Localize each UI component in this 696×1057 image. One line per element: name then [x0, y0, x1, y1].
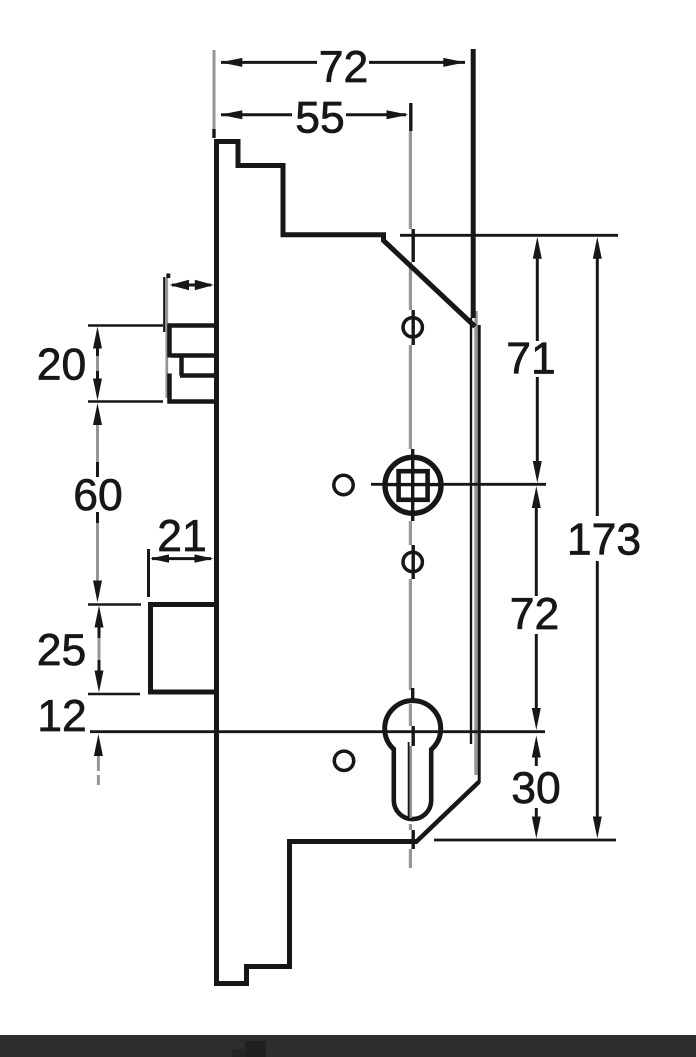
centerline black dash at top ext: [412, 229, 415, 262]
body bottom foot outline: [214, 839, 290, 984]
latch dim arrow left: [170, 280, 190, 291]
centerline black dash through screw hole: [412, 310, 415, 345]
spindle hole circle: [385, 457, 441, 513]
extension line gray left (72/55): [213, 50, 216, 130]
body right edge inner line: [470, 318, 472, 744]
dim 20 shaft gray: [96, 356, 99, 371]
dim 30 arrow up: [532, 736, 541, 758]
dim 71 shaft upper: [536, 248, 539, 341]
centerline black edge in cylinder stem: [408, 742, 410, 820]
dim 30 arrow down: [532, 817, 541, 839]
svg-text:30: 30: [511, 764, 561, 813]
latch bottom edge: [168, 399, 217, 404]
left extension black tick: [212, 129, 215, 138]
dim 20 ext bottom: [88, 400, 163, 403]
svg-text:21: 21: [157, 512, 207, 561]
screw hole left bottom: [334, 751, 353, 770]
dim 72 top arrow left: [220, 58, 242, 67]
cylinder center extension line: [90, 730, 545, 733]
latch mid line 1: [171, 353, 216, 358]
spindle center extension line: [371, 483, 546, 486]
dim 72 right shaft upper: [535, 495, 538, 596]
right extension black thick top: [471, 49, 476, 318]
svg-text:25: 25: [37, 626, 87, 675]
dim 12 shaft gray: [97, 756, 100, 771]
centerline black dash through small hole: [412, 545, 415, 579]
dim 20 ext top: [88, 324, 163, 327]
foot inner tick gray: [245, 971, 248, 983]
latch bevel step: [179, 356, 184, 376]
top extension line right: [400, 234, 618, 237]
dim 55 arrow right: [387, 110, 409, 119]
dim 71 shaft lower: [536, 377, 539, 472]
dim 71 arrow up: [533, 237, 542, 259]
dim 60 arrow down: [93, 581, 102, 603]
dim 72 right shaft lower: [535, 634, 538, 721]
svg-text:173: 173: [567, 516, 641, 565]
dim 60 shaft black dash below text: [96, 512, 99, 523]
dim 25 shaft black dash bottom: [98, 660, 101, 671]
extension line latch tip black edge: [163, 277, 165, 332]
latch lower left edge: [167, 374, 172, 404]
dim 25 shaft black dash top: [98, 627, 101, 638]
centerline black dash above cylinder: [411, 688, 414, 703]
latch dim double arrow shaft: [172, 284, 211, 287]
screw hole top: [403, 318, 422, 337]
dim 20 shaft black dash bottom: [96, 371, 99, 379]
dim 25 ext bottom: [88, 693, 140, 696]
bottom extension line right: [434, 839, 616, 842]
extension line gray right edge: [474, 311, 477, 775]
dim 72 top line right: [369, 61, 465, 64]
latch top edge: [168, 323, 217, 328]
latch mid line 2: [180, 373, 216, 378]
dim 60 arrow up: [93, 403, 102, 425]
dim 55 line left: [221, 113, 292, 116]
centerline gray seg4: [409, 521, 412, 545]
dim 173 arrow up: [593, 237, 602, 259]
centerline gray seg1: [409, 131, 412, 229]
centerline black dash through spindle: [411, 449, 414, 521]
dim 30 shaft upper: [535, 743, 538, 766]
dim 12 shaft gray dash: [97, 775, 100, 785]
bottom dark bar: [0, 1035, 696, 1057]
faceplate: [214, 139, 219, 985]
screw hole left middle: [334, 475, 353, 494]
dim 20 shaft black dash top: [96, 348, 99, 356]
dim 25 arrow up: [95, 606, 104, 628]
dim 173 arrow down: [593, 817, 602, 839]
dim 72 top arrow right: [443, 58, 465, 67]
latch ext top dot: [166, 274, 170, 279]
euro cylinder stem: [394, 748, 431, 819]
dim 21 arrow left: [150, 554, 169, 562]
dim 173 shaft lower: [596, 561, 599, 826]
svg-text:55: 55: [295, 94, 345, 143]
centerline black dash at bottom edge: [412, 830, 415, 849]
centerline black dash top (55 tick): [409, 103, 412, 131]
dim 21 shaft: [152, 557, 211, 560]
dim 60 shaft gray lower: [96, 523, 99, 581]
dim 30 shaft lower: [535, 808, 538, 828]
spindle cross horizontal: [385, 483, 440, 486]
body bottom-right diagonal: [416, 782, 479, 843]
bottom bar dark patch: [245, 1041, 266, 1057]
dim 72 right arrow up: [532, 486, 541, 508]
centerline gray seg2: [409, 262, 412, 310]
dim 60 shaft gray upper: [96, 424, 99, 463]
centerline gray seg5: [409, 579, 412, 690]
latch upper left edge: [167, 324, 172, 358]
spindle hole square: [399, 471, 428, 500]
svg-text:72: 72: [319, 43, 369, 92]
dim 72 right arrow down: [532, 708, 541, 730]
svg-text:60: 60: [73, 471, 123, 520]
deadbolt outline: [151, 605, 217, 693]
dim 72 top line left: [221, 61, 317, 64]
bottom bar dark patch 2: [232, 1049, 246, 1057]
body top head outline: [214, 142, 475, 327]
dim 20 arrow down: [93, 379, 102, 401]
dim 55 line right: [346, 113, 406, 116]
latch dim arrow right: [195, 280, 214, 291]
dim 60 shaft black dash above text: [96, 462, 99, 477]
svg-text:71: 71: [506, 335, 556, 384]
dim 55 arrow left: [220, 110, 242, 119]
dim 71 arrow down: [533, 461, 542, 483]
dim 25 shaft gray: [98, 638, 101, 660]
dim 25 arrow down: [95, 671, 104, 693]
extension line latch tip gray: [165, 278, 168, 398]
euro cylinder circle: [385, 701, 441, 757]
body right edge outer line: [478, 325, 481, 783]
dim 21 ext line: [147, 549, 150, 597]
centerline gray seg3: [409, 345, 412, 449]
dim 60 ext bottom: [88, 603, 141, 606]
centerline gray seg6: [409, 746, 412, 818]
dim 173 shaft upper: [596, 248, 599, 516]
svg-text:12: 12: [37, 692, 87, 741]
dim 12 arrow up: [94, 734, 103, 756]
dim 20 arrow up: [93, 327, 102, 349]
svg-text:72: 72: [510, 590, 560, 639]
dim 21 arrow right: [195, 554, 214, 562]
centerline gray seg5b: [409, 704, 412, 726]
centerline black dash at cylinder top: [412, 726, 415, 746]
centerline gray seg6b: [409, 824, 412, 830]
screw hole below spindle: [403, 552, 422, 571]
body bottom edge: [288, 839, 417, 844]
centerline gray seg7: [409, 849, 412, 868]
svg-text:20: 20: [37, 341, 87, 390]
